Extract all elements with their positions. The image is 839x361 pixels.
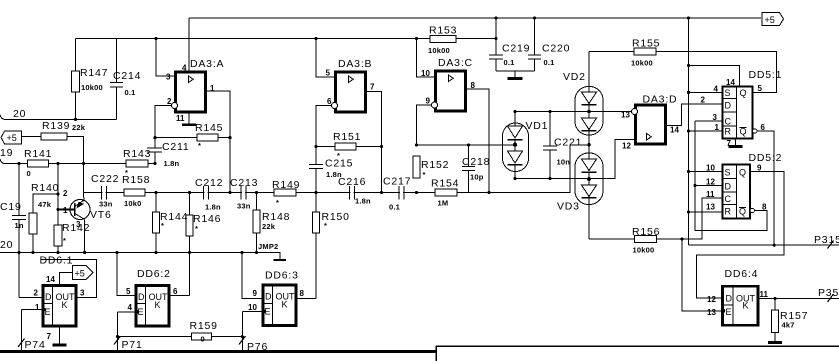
connector slash P71 bbox=[114, 336, 121, 345]
wire line P315 bbox=[689, 244, 839, 246]
op-amp pin9 circle DA3:C bbox=[432, 102, 438, 108]
svg-text:8: 8 bbox=[762, 203, 767, 212]
wire vertical feed x688.5 bbox=[688, 18, 690, 245]
svg-text:D: D bbox=[45, 292, 52, 302]
svg-text:7: 7 bbox=[47, 332, 52, 341]
resistor R158 bbox=[124, 189, 145, 196]
svg-text:0.1: 0.1 bbox=[504, 58, 515, 67]
wire pin7 feedback DA3:B bbox=[366, 92, 382, 193]
svg-text:R: R bbox=[725, 207, 732, 217]
wire node19 y163.5 bbox=[0, 159, 155, 164]
svg-text:1: 1 bbox=[715, 123, 720, 132]
svg-text:R140: R140 bbox=[31, 182, 59, 194]
svg-text:DD5:2: DD5:2 bbox=[749, 152, 783, 164]
wire pin4 E DD6:2 to P71 bbox=[118, 312, 137, 351]
svg-text:10: 10 bbox=[706, 164, 715, 173]
wire pin5 drop DA3:B bbox=[316, 39, 336, 78]
svg-text:DD6:2: DD6:2 bbox=[137, 268, 171, 280]
flipflop pin8 circle DD5:2 bbox=[750, 208, 754, 212]
svg-text:5: 5 bbox=[758, 84, 763, 93]
svg-text:R159: R159 bbox=[190, 320, 218, 332]
svg-text:R147: R147 bbox=[80, 67, 108, 79]
connector slash P74 bbox=[18, 339, 25, 348]
wire pin6 OUT DD6:2 bbox=[169, 295, 190, 297]
svg-text:*: * bbox=[161, 221, 164, 230]
svg-text:0.1: 0.1 bbox=[389, 203, 400, 212]
svg-text:+5: +5 bbox=[7, 133, 17, 143]
wire top rail y18 bbox=[189, 17, 761, 19]
svg-text:12: 12 bbox=[706, 178, 715, 187]
svg-text:E: E bbox=[726, 307, 732, 317]
svg-text:S: S bbox=[725, 168, 731, 178]
svg-text:13: 13 bbox=[621, 111, 630, 120]
svg-text:E: E bbox=[138, 307, 144, 317]
svg-text:6: 6 bbox=[327, 97, 332, 106]
capacitor C19 bbox=[12, 164, 26, 253]
power flag +5 top right bbox=[762, 13, 784, 26]
svg-text:12: 12 bbox=[622, 142, 631, 151]
svg-text:7: 7 bbox=[370, 83, 375, 92]
resistor R159 bbox=[118, 336, 243, 338]
wire R155 to pin5 Q bbox=[656, 52, 777, 93]
wire pin8 DA3:C bbox=[466, 89, 490, 193]
svg-text:D: D bbox=[725, 101, 732, 111]
resistor R140 bbox=[33, 194, 58, 253]
svg-text:9: 9 bbox=[757, 164, 762, 173]
svg-text:C214: C214 bbox=[113, 70, 141, 82]
svg-text:C216: C216 bbox=[338, 176, 366, 188]
svg-text:12: 12 bbox=[707, 295, 716, 304]
svg-text:C218: C218 bbox=[462, 156, 490, 168]
resistor R149 bbox=[274, 189, 296, 196]
svg-text:R139: R139 bbox=[42, 120, 70, 132]
wire pin10 drop DA3:C bbox=[417, 39, 436, 78]
node bus20 y252.5 with jumper JMP2 bbox=[0, 253, 280, 260]
flip-flop U DD6:2 bbox=[136, 286, 169, 327]
resistor R141 bbox=[28, 160, 49, 167]
wire R156 node to pin13 E DD6:4 bbox=[682, 239, 723, 311]
wire node BOT y178.5 bbox=[515, 139, 636, 178]
svg-text:+5: +5 bbox=[75, 269, 85, 279]
svg-text:4: 4 bbox=[182, 64, 187, 73]
wire pin13 R DD5:2 bbox=[689, 211, 723, 213]
svg-text:R151: R151 bbox=[333, 131, 361, 143]
svg-text:7: 7 bbox=[727, 139, 732, 148]
ground below C219/C220 bbox=[514, 71, 516, 77]
svg-text:*: * bbox=[63, 236, 66, 245]
svg-text:C220: C220 bbox=[542, 43, 570, 55]
flip-flop U DD6:1 bbox=[43, 286, 76, 327]
wire pin6 Q- DD5:1 to P315 line bbox=[757, 131, 774, 245]
wire pin11 DD6:4 to P35 bbox=[758, 298, 839, 300]
svg-text:C212: C212 bbox=[195, 177, 223, 189]
svg-text:5: 5 bbox=[126, 287, 131, 296]
svg-text:R158: R158 bbox=[122, 174, 150, 186]
resistor R150 bbox=[315, 193, 317, 299]
wire pin14 riser DD6:1 bbox=[60, 273, 73, 286]
svg-text:14: 14 bbox=[670, 126, 679, 135]
svg-text:P74: P74 bbox=[25, 339, 46, 351]
wire node TOP y111.5 bbox=[515, 111, 631, 113]
wire VT6 emitter riser top bbox=[83, 164, 86, 201]
Qbar overline DD5:1 bbox=[740, 127, 747, 129]
svg-text:2: 2 bbox=[34, 289, 39, 298]
svg-text:19: 19 bbox=[0, 147, 13, 159]
connector slash P76 bbox=[239, 336, 246, 345]
wire pin1 R DD5:1 bbox=[689, 130, 723, 132]
svg-text:R144: R144 bbox=[160, 211, 188, 223]
wire pin6 DA3:B bbox=[316, 106, 331, 147]
svg-text:9: 9 bbox=[426, 97, 431, 106]
op-amp U DA3:C bbox=[436, 71, 466, 111]
svg-text:Q: Q bbox=[740, 127, 747, 137]
svg-text:5: 5 bbox=[326, 69, 331, 78]
svg-text:4: 4 bbox=[128, 303, 133, 312]
pin7 ground DD6:1 bbox=[59, 326, 61, 345]
wire pin10 S DD5:2 bbox=[689, 171, 723, 173]
resistor R148 bbox=[256, 193, 258, 253]
wire pin1 feedback DA3:A bbox=[206, 91, 231, 193]
svg-text:Q: Q bbox=[739, 168, 746, 178]
svg-text:10: 10 bbox=[248, 303, 257, 312]
svg-text:1.8n: 1.8n bbox=[205, 203, 221, 212]
resistor R146 bbox=[189, 193, 191, 296]
ground bar R157 bbox=[768, 341, 782, 344]
svg-text:P71: P71 bbox=[122, 339, 143, 351]
wire pin9 Q DD5:2 to pin12 D DD6:4 bbox=[696, 172, 784, 298]
wire pin5 D DD6:2 bbox=[117, 253, 136, 296]
svg-text:11: 11 bbox=[760, 290, 769, 299]
svg-text:11: 11 bbox=[176, 114, 185, 123]
wire pin14 riser DD5:1 bbox=[689, 66, 740, 87]
svg-text:DA3:A: DA3:A bbox=[190, 58, 224, 70]
svg-text:P315: P315 bbox=[814, 234, 839, 246]
flipflop pin6 circle DD5:1 bbox=[753, 129, 757, 133]
connector slash P315 bbox=[828, 241, 834, 249]
capacitor C217 bbox=[399, 186, 404, 200]
svg-text:9: 9 bbox=[253, 289, 258, 298]
svg-text:2: 2 bbox=[701, 96, 706, 105]
wire pin14 DA3:D to pin2 D bbox=[666, 104, 723, 126]
pin11 ground bar DA3:A bbox=[188, 112, 190, 124]
op-amp U DA3:B bbox=[336, 72, 366, 112]
svg-text:R: R bbox=[725, 127, 732, 137]
capacitor C222 bbox=[102, 186, 107, 200]
resistor R153 bbox=[430, 36, 456, 43]
wire VT6 collector bottom bbox=[84, 219, 86, 252]
svg-text:Q: Q bbox=[740, 88, 747, 98]
resistor R145 bbox=[155, 137, 230, 139]
svg-text:3: 3 bbox=[713, 113, 718, 122]
svg-text:8: 8 bbox=[300, 289, 305, 298]
svg-text:10k00: 10k00 bbox=[81, 83, 103, 92]
svg-text:C217: C217 bbox=[383, 176, 411, 188]
svg-text:10k00: 10k00 bbox=[633, 246, 655, 255]
svg-text:0: 0 bbox=[27, 169, 31, 178]
svg-text:K: K bbox=[62, 300, 68, 310]
svg-text:*: * bbox=[276, 198, 279, 207]
wire node20 left y119.3 bbox=[0, 115, 116, 120]
svg-text:2: 2 bbox=[63, 189, 68, 198]
resistor R144 bbox=[155, 193, 157, 253]
wire cap bottoms link bbox=[496, 70, 535, 72]
svg-text:S: S bbox=[725, 88, 731, 98]
svg-text:DA3:D: DA3:D bbox=[643, 94, 678, 106]
svg-text:C222: C222 bbox=[91, 173, 119, 185]
flip-flop U DD5:2 bbox=[723, 165, 751, 219]
svg-text:K: K bbox=[155, 300, 161, 310]
svg-text:1.8n: 1.8n bbox=[355, 197, 371, 206]
svg-text:10n: 10n bbox=[557, 158, 571, 167]
flip-flop U DD6:3 bbox=[263, 285, 296, 326]
svg-text:14: 14 bbox=[46, 275, 55, 284]
op-amp pin2 circle DA3:A bbox=[172, 103, 178, 109]
svg-text:6: 6 bbox=[173, 287, 178, 296]
svg-text:22k: 22k bbox=[262, 222, 276, 231]
resistor R143 bbox=[126, 160, 148, 167]
svg-text:10k00: 10k00 bbox=[428, 46, 450, 55]
pin7 ground DD5:1 bbox=[735, 139, 737, 147]
flip-flop U DD5:1 bbox=[723, 87, 753, 139]
svg-text:1: 1 bbox=[35, 303, 40, 312]
svg-text:*: * bbox=[198, 141, 201, 150]
svg-text:47k: 47k bbox=[38, 200, 52, 209]
svg-text:1M: 1M bbox=[438, 199, 449, 208]
svg-text:1: 1 bbox=[63, 206, 68, 215]
svg-text:13: 13 bbox=[707, 308, 716, 317]
svg-text:D: D bbox=[725, 182, 732, 192]
resistor R155 bbox=[589, 51, 634, 53]
svg-text:R141: R141 bbox=[24, 148, 52, 160]
capacitor C215 bbox=[309, 147, 323, 193]
svg-text:VD2: VD2 bbox=[563, 71, 586, 83]
diode pair VD1 bbox=[503, 123, 529, 172]
wire pin9 D DD6:3 bbox=[242, 253, 263, 299]
svg-text:20: 20 bbox=[13, 108, 26, 120]
svg-text:R149: R149 bbox=[272, 179, 300, 191]
svg-text:33n: 33n bbox=[237, 202, 251, 211]
border bottom left sheet bbox=[0, 350, 436, 353]
svg-text:14: 14 bbox=[726, 78, 735, 87]
wire pin2 DA3:A bbox=[155, 106, 171, 138]
resistor R139 bbox=[22, 137, 84, 164]
svg-text:0.1: 0.1 bbox=[544, 58, 555, 67]
svg-text:C: C bbox=[725, 117, 732, 127]
wire R156 node to pin11 C bbox=[657, 198, 723, 239]
capacitor C213 bbox=[241, 186, 246, 200]
svg-text:20: 20 bbox=[0, 239, 13, 251]
power flag +5 DD6:1 bbox=[73, 266, 94, 280]
svg-text:R143: R143 bbox=[123, 148, 151, 160]
capacitor C211 bbox=[147, 138, 162, 164]
op-amp U DA3:A bbox=[176, 72, 206, 112]
svg-text:4: 4 bbox=[714, 85, 719, 94]
svg-text:*: * bbox=[324, 221, 327, 230]
wire pin3 C DD5:1 bbox=[695, 120, 723, 122]
svg-text:K: K bbox=[743, 301, 749, 311]
resistor R154 bbox=[435, 189, 457, 196]
svg-text:DD6.1: DD6.1 bbox=[40, 255, 74, 267]
svg-text:C211: C211 bbox=[162, 141, 190, 153]
svg-text:1: 1 bbox=[210, 84, 215, 93]
svg-text:0.1: 0.1 bbox=[125, 88, 136, 97]
svg-text:C215: C215 bbox=[325, 158, 353, 170]
svg-text:E: E bbox=[45, 307, 51, 317]
svg-text:6: 6 bbox=[761, 123, 766, 132]
svg-text:11: 11 bbox=[706, 190, 715, 199]
flip-flop U DD6:4 bbox=[723, 286, 759, 325]
svg-text:*: * bbox=[423, 170, 426, 179]
svg-text:8: 8 bbox=[471, 81, 476, 90]
svg-text:DD6:4: DD6:4 bbox=[725, 268, 759, 280]
power flag +5 left bbox=[1, 131, 22, 144]
wire node A y145 bbox=[417, 144, 516, 146]
svg-text:22k: 22k bbox=[72, 123, 86, 132]
wire rail2 y38.5 bbox=[76, 38, 497, 40]
resistor R147 bbox=[75, 39, 77, 120]
capacitor C212 bbox=[204, 186, 209, 200]
svg-text:10: 10 bbox=[421, 69, 430, 78]
svg-text:3: 3 bbox=[80, 289, 85, 298]
svg-text:D: D bbox=[726, 294, 733, 304]
svg-text:2: 2 bbox=[167, 97, 172, 106]
resistor R157 bbox=[774, 299, 776, 343]
svg-text:*: * bbox=[195, 224, 198, 233]
svg-text:VD3: VD3 bbox=[557, 201, 580, 213]
wire pin1 E DD6:1 to P74 bbox=[22, 310, 44, 352]
svg-text:3: 3 bbox=[76, 220, 81, 229]
diode pair VD2 bbox=[575, 87, 603, 136]
capacitor C218 bbox=[462, 145, 475, 193]
svg-text:C: C bbox=[725, 194, 732, 204]
svg-text:10k0: 10k0 bbox=[124, 199, 142, 208]
svg-text:R154: R154 bbox=[431, 178, 459, 190]
svg-text:R155: R155 bbox=[632, 38, 660, 50]
diode pair VD3 bbox=[575, 153, 603, 205]
svg-text:10p: 10p bbox=[470, 173, 484, 182]
wire pin8 OUT DD6:3 bbox=[296, 297, 316, 299]
svg-text:R145: R145 bbox=[195, 122, 223, 134]
svg-text:C219: C219 bbox=[502, 43, 530, 55]
svg-text:DA3:C: DA3:C bbox=[438, 57, 473, 69]
svg-text:3: 3 bbox=[166, 73, 171, 82]
svg-text:JMP2: JMP2 bbox=[258, 242, 278, 251]
svg-text:0: 0 bbox=[201, 335, 205, 344]
capacitor C221 bbox=[543, 112, 557, 179]
wire main line y192.5 bbox=[84, 145, 589, 193]
svg-text:VT6: VT6 bbox=[90, 209, 112, 221]
svg-text:C213: C213 bbox=[230, 177, 258, 189]
Qbar overline DD5:2 bbox=[739, 207, 746, 209]
connector slash P35 bbox=[828, 294, 834, 302]
resistor R151 bbox=[316, 146, 382, 148]
svg-text:C221: C221 bbox=[554, 137, 582, 149]
transistor Q VT6 bbox=[70, 200, 90, 220]
svg-text:13: 13 bbox=[706, 203, 715, 212]
op-amp pin13 circle DA3:D bbox=[632, 109, 638, 115]
svg-text:E: E bbox=[265, 307, 271, 317]
resistor R142 bbox=[57, 164, 59, 253]
svg-text:P35: P35 bbox=[818, 287, 839, 299]
capacitor C216 bbox=[350, 186, 355, 200]
wire pin4 S DD5:1 bbox=[689, 91, 723, 93]
svg-text:Q: Q bbox=[739, 207, 746, 217]
svg-text:R153: R153 bbox=[429, 25, 457, 37]
svg-text:P76: P76 bbox=[247, 341, 268, 353]
svg-text:10k00: 10k00 bbox=[631, 59, 653, 68]
svg-text:33n: 33n bbox=[99, 200, 113, 209]
wire pin12 D DD5:2 / pin3 C net x695 bbox=[695, 121, 767, 231]
svg-text:DA3:B: DA3:B bbox=[338, 58, 372, 70]
border bottom right sheet bbox=[436, 345, 839, 347]
svg-text:DD5:1: DD5:1 bbox=[749, 69, 783, 81]
svg-text:R156: R156 bbox=[632, 226, 660, 238]
resistor R156 bbox=[589, 238, 635, 240]
svg-text:4k7: 4k7 bbox=[782, 321, 795, 330]
svg-text:1n: 1n bbox=[15, 221, 24, 230]
svg-text:C19: C19 bbox=[0, 201, 22, 213]
svg-text:1.8n: 1.8n bbox=[164, 159, 180, 168]
wire riser pin4 DA3:A bbox=[188, 18, 190, 72]
wire pin9 DA3:C bbox=[417, 105, 432, 145]
resistor R152 bbox=[413, 156, 420, 178]
svg-text:K: K bbox=[282, 300, 288, 310]
wire pin2 D DD6:1 bbox=[19, 253, 43, 298]
wire pin3 drop DA3:A bbox=[156, 39, 176, 77]
svg-text:D: D bbox=[265, 292, 272, 302]
wire pin3 OUT DD6:1 bbox=[41, 259, 97, 297]
svg-text:VD1: VD1 bbox=[526, 120, 549, 132]
wire C219 riser bbox=[495, 18, 497, 71]
capacitor C220 bbox=[528, 18, 541, 71]
op-amp pin6 circle DA3:B bbox=[332, 103, 338, 109]
svg-text:DD6:3: DD6:3 bbox=[265, 270, 299, 282]
svg-text:+5: +5 bbox=[765, 15, 775, 25]
capacitor C214 bbox=[110, 39, 123, 120]
op-amp U DA3:D bbox=[636, 105, 666, 144]
capacitor C219 bbox=[489, 55, 503, 59]
svg-text:D: D bbox=[138, 292, 145, 302]
wire pin10 E DD6:3 to P76 bbox=[242, 311, 263, 351]
